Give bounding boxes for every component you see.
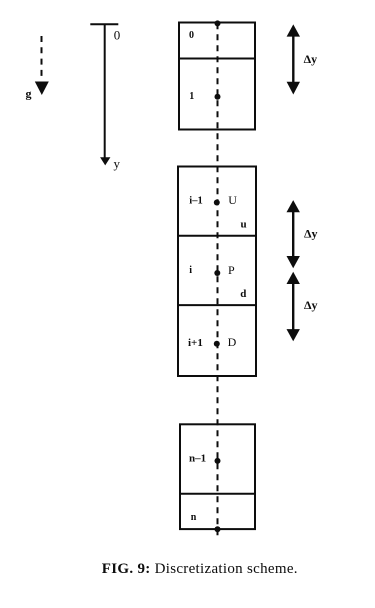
- svg-text:n: n: [191, 512, 197, 523]
- svg-text:Δy: Δy: [304, 52, 318, 66]
- node 0 dot: [215, 20, 221, 26]
- Δy arrow middle-upper upper head: [287, 200, 300, 212]
- node U dot: [214, 200, 220, 206]
- node P dot: [214, 270, 220, 276]
- top box divider: [179, 58, 255, 60]
- gravity vector g arrowhead: [35, 82, 49, 96]
- bottom box divider: [180, 493, 255, 495]
- center dashed grid line: [217, 23, 219, 540]
- middle box divider d-face: [178, 304, 256, 306]
- svg-text:P: P: [228, 263, 235, 277]
- svg-text:u: u: [241, 218, 247, 230]
- node D dot: [214, 341, 220, 347]
- svg-text:0: 0: [114, 28, 121, 43]
- y-axis arrowhead: [100, 157, 110, 165]
- svg-text:i: i: [189, 265, 192, 276]
- top control volume box: [179, 23, 255, 130]
- svg-text:Δy: Δy: [304, 298, 318, 312]
- svg-text:U: U: [228, 193, 237, 207]
- Δy arrow middle-lower upper head: [287, 272, 300, 284]
- svg-text:Δy: Δy: [304, 226, 318, 240]
- Δy arrow middle-lower (shaft): [292, 282, 294, 332]
- y-axis shaft: [104, 24, 106, 158]
- svg-text:i–1: i–1: [189, 196, 202, 207]
- svg-text:0: 0: [189, 30, 194, 41]
- Δy arrow middle-lower lower head: [287, 329, 300, 341]
- svg-text:n–1: n–1: [189, 453, 206, 465]
- y-axis top bar: [90, 23, 118, 25]
- bottom control volume box: [180, 424, 255, 529]
- Δy arrow top (shaft): [292, 34, 294, 84]
- Δy arrow middle-upper lower head: [287, 256, 300, 268]
- gravity vector g (dashed arrow shaft): [41, 36, 43, 80]
- Δy arrow middle-upper (shaft): [292, 210, 294, 259]
- node n dot: [215, 526, 221, 532]
- svg-text:D: D: [228, 335, 237, 349]
- svg-text:d: d: [240, 288, 246, 300]
- svg-text:g: g: [26, 87, 32, 101]
- node 1 dot: [215, 94, 221, 100]
- svg-text:i+1: i+1: [188, 337, 203, 349]
- node n-1 dot: [215, 458, 221, 464]
- Δy arrow top lower head: [287, 82, 300, 95]
- svg-text:FIG. 9: Discretization scheme.: FIG. 9: Discretization scheme.: [102, 561, 298, 577]
- svg-text:1: 1: [189, 91, 194, 102]
- svg-text:y: y: [114, 156, 121, 171]
- middle box divider u-face: [178, 235, 256, 237]
- middle control volume box: [178, 167, 256, 377]
- Δy arrow top upper head: [287, 24, 300, 36]
